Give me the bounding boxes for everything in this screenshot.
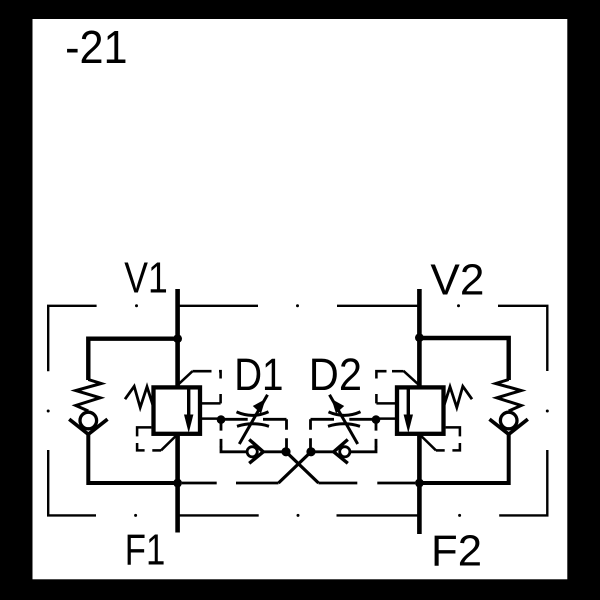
wire check 2 to node X2 xyxy=(313,450,334,453)
svg-text:D2: D2 xyxy=(309,349,362,400)
node X2 xyxy=(306,447,315,456)
branch wire top-right to check valve CV2 xyxy=(419,338,508,380)
page border right bar xyxy=(567,0,600,600)
throttle D2 lower arc xyxy=(328,424,360,427)
bypass check valve 2 seat xyxy=(334,440,348,464)
counterbalance valve body right xyxy=(397,387,444,433)
wire check 1 to node X1 xyxy=(263,450,284,453)
valve left port line upper right xyxy=(202,402,221,405)
svg-text:F2: F2 xyxy=(431,527,482,576)
cross pilot diagonal from X1 xyxy=(286,452,319,483)
frame chain dots xyxy=(47,304,549,517)
node junction F1 branch xyxy=(173,479,182,488)
check valve CV1 seat xyxy=(69,419,107,434)
check valve CV1 ball xyxy=(80,412,97,429)
svg-text:-21: -21 xyxy=(65,21,128,73)
valve right remote pilot diagonal bottom xyxy=(421,436,436,450)
D1 pilot dashed drop from node xyxy=(220,422,223,448)
D2 pilot dashed drop left xyxy=(309,419,312,448)
main line V1 (port V1 down to valve) xyxy=(175,289,180,388)
svg-text:V2: V2 xyxy=(430,256,484,305)
main line F2 xyxy=(417,435,422,535)
node junction F2 branch xyxy=(415,479,424,488)
enclosure frame (chain line), top edge xyxy=(48,306,547,516)
node junction V1 branch xyxy=(173,334,182,343)
bypass check valve 1 seat xyxy=(249,440,263,464)
valve right pilot diagonal top xyxy=(403,371,418,385)
main line F1 (valve down to port F1) xyxy=(175,435,180,533)
valve right port line upper left xyxy=(376,402,395,405)
throttle D1 line left xyxy=(223,418,248,421)
valve right poppet arrow xyxy=(407,389,410,417)
valve right spring xyxy=(444,386,472,407)
throttle D1 upper arc xyxy=(237,412,269,416)
counterbalance valve body left xyxy=(154,387,201,433)
throttle D2 line right xyxy=(349,418,372,421)
throttle D2 line left xyxy=(311,418,335,421)
node D1 inlet xyxy=(217,415,226,424)
throttle D2 adjust arrow xyxy=(330,395,358,444)
valve left remote pilot diagonal bottom xyxy=(161,436,176,450)
valve left pilot diagonal top xyxy=(177,371,193,386)
D2 pilot dashed drop from node xyxy=(375,422,378,448)
bypass check valve 1 ball xyxy=(247,447,257,457)
node D2 inlet xyxy=(372,415,381,424)
node X1 xyxy=(281,447,290,456)
branch wire top-left to check valve CV1 xyxy=(88,339,177,380)
check valve CV1 spring xyxy=(76,380,101,412)
throttle D1 adjust arrow xyxy=(239,395,267,444)
check valve CV2 ball xyxy=(500,412,517,429)
branch wire bottom-left from check valve CV1 xyxy=(88,433,177,483)
cross pilot diagonal from X2 xyxy=(279,452,312,483)
valve right port line lower left xyxy=(378,417,395,420)
throttle D1 lower arc xyxy=(237,424,269,427)
frame bottom edge xyxy=(48,450,96,515)
wire to bypass check 1 xyxy=(221,447,246,452)
branch wire bottom-right from check valve CV2 xyxy=(419,433,508,483)
valve left spring xyxy=(125,386,153,407)
D1 pilot dashed drop right xyxy=(285,419,288,448)
svg-text:F1: F1 xyxy=(125,526,166,575)
page border top bar xyxy=(0,0,600,19)
node junction V2 branch xyxy=(415,333,424,342)
page border left bar xyxy=(0,0,33,600)
bypass check valve 2 ball xyxy=(340,447,350,457)
check valve CV2 spring xyxy=(496,380,521,412)
throttle D2 upper arc xyxy=(329,412,361,416)
throttle D1 line right with corner down xyxy=(263,418,287,421)
svg-text:D1: D1 xyxy=(234,349,283,400)
cross pilot dashed wire to F2 node xyxy=(319,482,416,485)
wire to bypass check 2 xyxy=(351,447,376,452)
valve right remote pilot dashes (bottom-right) xyxy=(436,427,460,450)
valve left poppet arrow xyxy=(187,389,190,417)
main line V2 xyxy=(417,289,422,388)
check valve CV2 seat xyxy=(490,419,528,434)
svg-text:V1: V1 xyxy=(124,253,168,302)
valve right pilot dashes (top) xyxy=(376,371,403,403)
valve left remote pilot dashes (bottom-left) xyxy=(137,427,161,450)
cross pilot dashed wire to F1 node xyxy=(182,482,279,485)
valve left port line lower right xyxy=(202,417,219,420)
page border bottom bar xyxy=(0,579,600,600)
valve left pilot dashes (top) xyxy=(193,371,221,403)
